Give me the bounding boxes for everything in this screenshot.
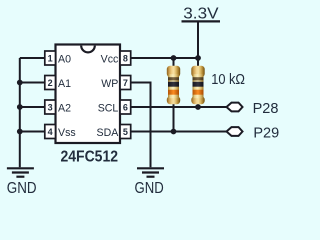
svg-text:10 kΩ: 10 kΩ <box>211 72 245 88</box>
pin 6 box <box>120 100 131 114</box>
svg-text:P28: P28 <box>253 100 279 117</box>
pin 4 box <box>45 125 56 139</box>
junction R1 top <box>171 55 177 61</box>
svg-text:3: 3 <box>48 102 53 112</box>
svg-text:A2: A2 <box>58 102 71 114</box>
wire R2 leads <box>197 58 199 107</box>
pin 2 box <box>45 76 56 90</box>
resistor R1 <box>167 66 180 105</box>
svg-text:1: 1 <box>48 53 53 63</box>
connector pad P28 <box>227 103 243 112</box>
wire pin8 to 3.3V rail <box>131 57 198 59</box>
svg-text:6: 6 <box>123 102 128 112</box>
svg-text:8: 8 <box>123 53 128 63</box>
wire pin1 stub <box>20 57 45 59</box>
wire SCL net <box>131 106 227 108</box>
pin 3 box <box>45 100 56 114</box>
resistor R2 <box>191 66 204 105</box>
wire pin7 to GND <box>131 83 151 168</box>
wire pin3 stub <box>20 106 45 108</box>
ground GND middle <box>137 168 164 176</box>
svg-text:5: 5 <box>123 127 128 137</box>
junction bus pin2 <box>17 80 23 86</box>
svg-text:Vcc: Vcc <box>101 53 119 65</box>
ground GND left <box>7 168 34 176</box>
junction bus pin3 <box>17 104 23 110</box>
svg-text:7: 7 <box>123 78 128 88</box>
svg-text:GND: GND <box>7 180 37 197</box>
svg-text:3.3V: 3.3V <box>183 6 219 23</box>
svg-text:24FC512: 24FC512 <box>61 149 119 166</box>
svg-text:2: 2 <box>48 78 53 88</box>
wire left bus vertical <box>19 58 21 167</box>
wire SDA net <box>131 131 227 133</box>
svg-text:SCL: SCL <box>98 102 119 114</box>
wire pin4 stub <box>20 131 45 133</box>
connector pad P29 <box>227 127 243 136</box>
svg-text:A1: A1 <box>58 78 71 90</box>
wire R1 leads <box>173 58 175 132</box>
pin 8 box <box>120 51 131 65</box>
junction bus pin4 <box>17 129 23 135</box>
svg-text:Vss: Vss <box>58 127 76 139</box>
IC notch <box>81 46 95 53</box>
junction R2 top <box>195 55 201 61</box>
op IC U1 24FC512 body <box>56 45 121 144</box>
pin 1 box <box>45 51 56 65</box>
junction R1 bottom SDA <box>171 129 177 135</box>
wire pin2 stub <box>20 82 45 84</box>
svg-text:P29: P29 <box>253 124 279 141</box>
power 3.3V <box>182 20 221 22</box>
svg-text:A0: A0 <box>58 53 71 65</box>
svg-text:WP: WP <box>101 78 118 90</box>
wire 3.3V vertical <box>197 21 199 58</box>
svg-text:GND: GND <box>135 180 164 197</box>
junction R2 bottom SCL <box>195 104 201 110</box>
pin 7 box <box>120 76 131 90</box>
svg-text:SDA: SDA <box>97 127 120 139</box>
pin 5 box <box>120 125 131 139</box>
svg-text:4: 4 <box>48 127 53 137</box>
